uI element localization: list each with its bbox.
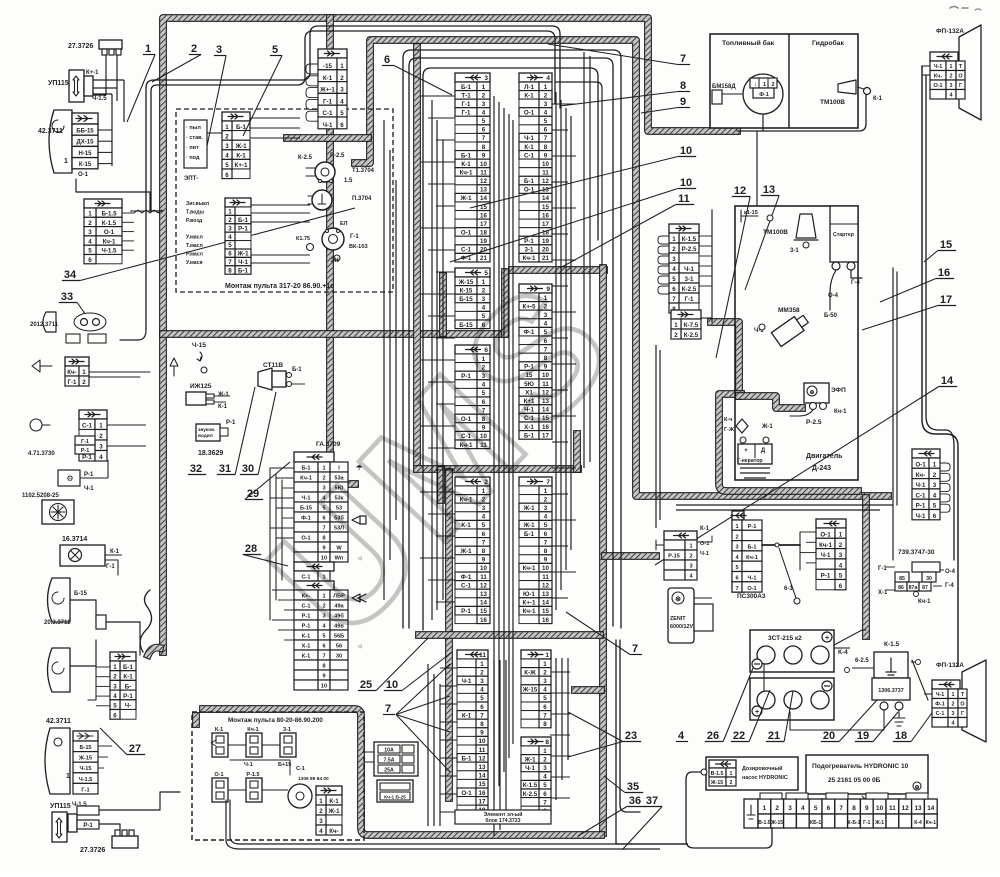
- svg-text:7: 7: [839, 805, 843, 812]
- svg-text:Ч-1.5: Ч-1.5: [101, 248, 117, 255]
- svg-text:Кч-1: Кч-1: [918, 599, 931, 605]
- svg-text:Х-1: Х-1: [878, 590, 888, 596]
- svg-text:27: 27: [129, 743, 141, 755]
- svg-text:Кч-1: Кч-1: [460, 169, 473, 176]
- svg-text:6: 6: [228, 251, 232, 258]
- svg-text:Р-1: Р-1: [83, 823, 93, 829]
- svg-text:В-1.5: В-1.5: [711, 771, 724, 777]
- svg-text:Р-1: Р-1: [748, 524, 757, 530]
- svg-text:6: 6: [672, 286, 676, 293]
- svg-text:К-1: К-1: [461, 161, 471, 168]
- svg-text:2: 2: [952, 702, 955, 708]
- svg-text:7: 7: [735, 586, 738, 592]
- svg-text:блок 174.3723: блок 174.3723: [485, 817, 520, 824]
- svg-text:5: 5: [544, 522, 548, 529]
- svg-text:С-1: С-1: [524, 152, 535, 159]
- svg-text:1: 1: [735, 524, 738, 530]
- svg-text:2: 2: [933, 472, 937, 479]
- svg-text:1: 1: [225, 124, 229, 131]
- svg-text:3: 3: [480, 678, 484, 685]
- svg-text:К-Ж: К-Ж: [524, 669, 536, 676]
- svg-text:К-1: К-1: [462, 712, 472, 719]
- svg-text:4: 4: [88, 238, 92, 245]
- svg-text:5: 5: [225, 162, 229, 169]
- svg-text:Ч-1: Ч-1: [700, 551, 709, 557]
- svg-text:к1-15: к1-15: [744, 210, 758, 216]
- svg-text:ПС300А3: ПС300А3: [737, 593, 766, 600]
- svg-text:Г-Ж: Г-Ж: [724, 427, 734, 433]
- svg-text:водил: водил: [198, 434, 213, 439]
- svg-text:2: 2: [340, 75, 344, 82]
- svg-text:14: 14: [480, 600, 487, 607]
- svg-text:4: 4: [933, 492, 937, 499]
- svg-text:Ч-1: Ч-1: [525, 765, 535, 772]
- svg-text:9: 9: [865, 805, 869, 812]
- svg-text:О-1: О-1: [461, 229, 472, 236]
- svg-text:10: 10: [680, 145, 692, 157]
- svg-text:4: 4: [543, 687, 547, 694]
- svg-text:56: 56: [336, 644, 342, 650]
- svg-text:Б-1.5: Б-1.5: [101, 211, 117, 218]
- svg-text:4: 4: [543, 774, 547, 781]
- svg-text:7: 7: [543, 712, 547, 719]
- svg-text:К-2.5: К-2.5: [523, 791, 538, 798]
- svg-text:ТМ100В: ТМ100В: [820, 99, 845, 106]
- svg-text:К-1: К-1: [524, 92, 534, 99]
- svg-text:УП115: УП115: [50, 803, 71, 810]
- svg-text:1: 1: [933, 462, 937, 469]
- svg-text:К-7.5: К-7.5: [684, 322, 699, 329]
- svg-text:Б-1: Б-1: [524, 178, 535, 185]
- svg-text:32: 32: [190, 463, 202, 475]
- svg-text:В-1.5: В-1.5: [758, 820, 770, 826]
- svg-text:5: 5: [482, 118, 486, 125]
- svg-text:10: 10: [480, 565, 487, 572]
- svg-text:Ж-1: Ж-1: [327, 808, 340, 815]
- svg-text:34: 34: [64, 269, 77, 281]
- svg-text:16: 16: [480, 617, 487, 624]
- svg-text:4: 4: [544, 514, 548, 521]
- svg-text:⊕: ⊕: [914, 785, 919, 791]
- svg-text:Р-2.5: Р-2.5: [330, 153, 345, 159]
- svg-text:Ж-1: Ж-1: [234, 143, 247, 150]
- svg-text:ТМ100В: ТМ100В: [763, 229, 788, 236]
- svg-text:10: 10: [479, 738, 486, 745]
- svg-text:12: 12: [480, 178, 487, 185]
- svg-text:Ф-1: Ф-1: [935, 702, 944, 708]
- svg-text:5: 5: [839, 573, 843, 580]
- svg-text:6: 6: [544, 531, 548, 538]
- svg-text:К-1.5: К-1.5: [102, 220, 117, 227]
- svg-text:2Н: 2Н: [331, 258, 339, 264]
- svg-text:О-1: О-1: [820, 532, 831, 539]
- svg-text:Г: Г: [961, 711, 964, 717]
- svg-text:1: 1: [482, 84, 486, 91]
- svg-text:Г-1: Г-1: [67, 379, 77, 386]
- svg-text:33: 33: [61, 291, 73, 303]
- svg-text:Р-1: Р-1: [226, 420, 236, 426]
- svg-text:Р-15: Р-15: [668, 554, 680, 560]
- svg-text:Р-1: Р-1: [461, 608, 471, 615]
- svg-text:8: 8: [482, 144, 486, 151]
- svg-text:739.3747-30: 739.3747-30: [898, 549, 935, 556]
- svg-text:3: 3: [340, 87, 344, 94]
- svg-text:Б-1: Б-1: [461, 84, 472, 91]
- svg-text:1306.3737: 1306.3737: [878, 688, 903, 694]
- svg-text:↓: ↓: [754, 82, 757, 88]
- svg-text:6: 6: [384, 54, 390, 66]
- svg-text:9: 9: [480, 730, 484, 737]
- svg-text:11: 11: [479, 747, 486, 754]
- svg-text:Р-1: Р-1: [302, 614, 311, 620]
- svg-text:13: 13: [480, 187, 487, 194]
- svg-text:Р-1: Р-1: [524, 238, 534, 245]
- svg-text:10: 10: [321, 684, 327, 690]
- svg-text:Ж-15: Ж-15: [522, 687, 538, 694]
- svg-text:5: 5: [88, 248, 92, 255]
- svg-text:87: 87: [922, 585, 928, 591]
- svg-text:УП115: УП115: [48, 80, 69, 87]
- svg-text:Кч-: Кч-: [916, 472, 925, 479]
- svg-text:Г-1: Г-1: [461, 101, 471, 108]
- svg-text:1: 1: [545, 652, 549, 659]
- svg-text:10: 10: [680, 177, 692, 189]
- svg-text:2: 2: [543, 756, 547, 763]
- svg-text:Р.масл: Р.масл: [186, 251, 203, 257]
- svg-text:Ч-: Ч-: [125, 703, 131, 710]
- svg-text:Стартер: Стартер: [833, 232, 854, 238]
- svg-text:ИЖ125: ИЖ125: [190, 383, 212, 390]
- svg-text:Ч-1: Ч-1: [936, 692, 945, 698]
- svg-text:5: 5: [340, 110, 344, 117]
- svg-text:Ж-1: Ж-1: [522, 522, 535, 529]
- svg-text:5: 5: [544, 118, 548, 125]
- svg-text:Д: Д: [761, 448, 766, 454]
- svg-text:5: 5: [322, 634, 325, 640]
- svg-text:2: 2: [82, 379, 86, 386]
- svg-text:Г-1: Г-1: [106, 564, 115, 570]
- svg-text:7.5А: 7.5А: [384, 758, 395, 764]
- svg-text:19: 19: [857, 730, 869, 742]
- svg-text:Г-нератор: Г-нератор: [737, 458, 763, 464]
- svg-text:Р-1: Р-1: [916, 503, 926, 510]
- svg-text:18: 18: [480, 229, 487, 236]
- svg-text:9: 9: [544, 152, 548, 159]
- svg-text:35: 35: [627, 781, 639, 793]
- svg-text:3: 3: [228, 225, 232, 232]
- svg-text:К-1: К-1: [302, 634, 310, 640]
- svg-text:К-1.5: К-1.5: [884, 641, 900, 648]
- svg-text:Р-1: Р-1: [123, 693, 133, 700]
- svg-text:1: 1: [544, 488, 548, 495]
- svg-text:Б-: Б-: [125, 683, 132, 690]
- svg-text:2: 2: [543, 669, 547, 676]
- svg-text:11: 11: [889, 805, 896, 812]
- svg-text:6: 6: [839, 583, 843, 590]
- svg-text:2: 2: [775, 805, 779, 812]
- svg-text:Кч-1: Кч-1: [926, 820, 937, 826]
- svg-text:3: 3: [543, 765, 547, 772]
- svg-text:-15: -15: [323, 63, 333, 70]
- svg-text:6: 6: [88, 257, 92, 264]
- svg-text:16: 16: [938, 267, 950, 279]
- svg-text:С-1: С-1: [82, 423, 93, 430]
- svg-text:1: 1: [839, 532, 843, 539]
- svg-text:Г-1: Г-1: [81, 439, 89, 445]
- svg-text:Б-1: Б-1: [123, 664, 134, 671]
- svg-text:Кч-1: Кч-1: [247, 727, 258, 733]
- svg-text:1: 1: [145, 43, 151, 55]
- svg-text:10: 10: [480, 161, 487, 168]
- svg-text:Ф-1: Ф-1: [759, 92, 769, 98]
- svg-text:6: 6: [480, 704, 484, 711]
- svg-text:ФП-132А: ФП-132А: [936, 28, 964, 35]
- svg-text:Ч-1: Ч-1: [934, 64, 943, 70]
- svg-text:2: 2: [99, 433, 103, 440]
- svg-text:3: 3: [543, 678, 547, 685]
- svg-text:3: 3: [482, 101, 486, 108]
- svg-text:2: 2: [191, 43, 197, 55]
- svg-text:Ч-1: Ч-1: [238, 259, 248, 266]
- svg-text:3-1: 3-1: [685, 276, 695, 283]
- svg-text:15: 15: [940, 239, 952, 251]
- svg-text:4: 4: [952, 721, 955, 727]
- svg-text:Ж-1: Ж-1: [459, 195, 472, 202]
- svg-text:4: 4: [672, 266, 676, 273]
- svg-text:37: 37: [646, 795, 658, 807]
- svg-text:К-1: К-1: [873, 96, 883, 102]
- svg-text:Ч-1: Ч-1: [821, 552, 831, 559]
- svg-text:4: 4: [480, 687, 484, 694]
- svg-text:Р-1: Р-1: [84, 472, 94, 478]
- svg-text:2: 2: [950, 74, 953, 80]
- svg-text:16: 16: [479, 790, 486, 797]
- svg-text:9: 9: [544, 557, 548, 564]
- svg-text:10: 10: [386, 679, 398, 691]
- svg-text:О-1: О-1: [747, 586, 756, 592]
- svg-text:С-1: С-1: [461, 247, 472, 254]
- svg-text:21: 21: [542, 255, 549, 262]
- svg-text:ЭПТ-: ЭПТ-: [184, 176, 198, 182]
- svg-text:· став.: · став.: [186, 135, 204, 141]
- svg-text:Б-1: Б-1: [292, 367, 302, 373]
- svg-text:21: 21: [768, 730, 780, 742]
- svg-text:Г-4: Г-4: [851, 280, 860, 286]
- svg-text:7: 7: [228, 259, 232, 266]
- svg-text:3: 3: [933, 482, 937, 489]
- svg-text:Д-243: Д-243: [812, 465, 831, 472]
- svg-text:25А: 25А: [384, 768, 394, 774]
- svg-text:5: 5: [228, 242, 232, 249]
- svg-text:К-15: К-15: [79, 162, 92, 168]
- svg-text:⊕: ⊕: [809, 390, 814, 396]
- svg-text:6: 6: [933, 513, 937, 520]
- svg-text:11: 11: [480, 169, 487, 176]
- svg-text:17: 17: [542, 221, 549, 228]
- svg-text:4: 4: [113, 693, 117, 700]
- svg-text:7: 7: [543, 799, 547, 806]
- svg-text:Кч-1: Кч-1: [103, 238, 116, 245]
- svg-text:30: 30: [242, 463, 254, 475]
- svg-text:ЭФП: ЭФП: [831, 387, 846, 394]
- svg-text:7: 7: [544, 135, 548, 142]
- svg-text:1: 1: [340, 63, 344, 70]
- svg-text:О-1: О-1: [214, 772, 223, 778]
- svg-text:2: 2: [730, 780, 733, 786]
- svg-text:8: 8: [545, 739, 549, 746]
- svg-text:6: 6: [544, 127, 548, 134]
- svg-text:2: 2: [319, 808, 323, 815]
- svg-text:3: 3: [319, 818, 323, 825]
- svg-text:85: 85: [899, 576, 905, 582]
- svg-text:4: 4: [99, 454, 103, 461]
- svg-text:1: 1: [66, 773, 70, 780]
- svg-text:5: 5: [543, 695, 547, 702]
- svg-text:Б-15: Б-15: [79, 745, 91, 751]
- svg-text:О-1: О-1: [78, 172, 89, 178]
- svg-text:Ж-1: Ж-1: [217, 392, 229, 398]
- svg-text:Кч-1: Кч-1: [523, 608, 536, 615]
- svg-text:6: 6: [322, 644, 325, 650]
- svg-text:Ч-1: Ч-1: [84, 486, 94, 492]
- svg-text:Ч-1: Ч-1: [684, 266, 694, 273]
- svg-text:Н-15: Н-15: [78, 151, 92, 157]
- svg-text:Ч-1.5: Ч-1.5: [92, 96, 107, 102]
- svg-text:22: 22: [733, 730, 745, 742]
- svg-text:1: 1: [88, 211, 92, 218]
- svg-text:10: 10: [542, 161, 549, 168]
- svg-text:Т-1: Т-1: [461, 92, 471, 99]
- svg-text:1: 1: [689, 544, 692, 550]
- svg-text:О: О: [958, 74, 962, 80]
- svg-text:Кч-: Кч-: [934, 74, 942, 80]
- svg-text:6: 6: [225, 172, 229, 179]
- svg-text:11: 11: [479, 652, 486, 659]
- svg-text:10А: 10А: [384, 748, 394, 754]
- svg-text:1: 1: [544, 84, 548, 91]
- svg-text:Ч-1: Ч-1: [462, 678, 472, 685]
- svg-text:11: 11: [542, 169, 549, 176]
- svg-text:Г-1: Г-1: [323, 98, 333, 105]
- svg-text:42.3711: 42.3711: [46, 718, 71, 725]
- svg-text:16.3714: 16.3714: [62, 536, 87, 543]
- svg-text:19: 19: [480, 238, 487, 245]
- svg-text:14: 14: [542, 600, 549, 607]
- svg-text:12: 12: [734, 185, 746, 197]
- svg-text:Ч-15: Ч-15: [79, 766, 91, 772]
- svg-text:18: 18: [895, 730, 907, 742]
- svg-text:27.3726: 27.3726: [68, 43, 93, 50]
- svg-text:К-2.5: К-2.5: [298, 155, 313, 161]
- svg-text:Б-1: Б-1: [462, 755, 473, 762]
- svg-text:Ч-1: Ч-1: [748, 576, 757, 582]
- svg-text:Б+15: Б+15: [278, 762, 291, 768]
- svg-text:30: 30: [336, 654, 342, 660]
- svg-text:ZENIT: ZENIT: [670, 616, 686, 622]
- svg-text:5: 5: [814, 805, 818, 812]
- svg-text:ФП-132А: ФП-132А: [936, 662, 964, 669]
- svg-text:9: 9: [680, 96, 686, 108]
- svg-text:15: 15: [480, 608, 487, 615]
- svg-text:4: 4: [801, 805, 805, 812]
- svg-text:С-1: С-1: [296, 766, 305, 772]
- svg-text:К-1: К-1: [700, 526, 710, 532]
- svg-text:· пыл: · пыл: [186, 125, 201, 131]
- svg-text:Ж-1: Ж-1: [236, 251, 249, 258]
- svg-text:Ч-1: Ч-1: [244, 762, 253, 768]
- svg-text:Р-1: Р-1: [302, 624, 311, 630]
- svg-text:13: 13: [914, 805, 922, 812]
- svg-text:Р-2.5: Р-2.5: [682, 246, 697, 253]
- svg-text:11: 11: [542, 574, 549, 581]
- svg-text:15: 15: [542, 204, 549, 211]
- svg-text:1: 1: [543, 748, 547, 755]
- svg-text:5: 5: [272, 44, 278, 56]
- svg-text:Г-1: Г-1: [81, 787, 89, 793]
- svg-text:Р-1: Р-1: [82, 454, 92, 461]
- svg-text:7: 7: [544, 539, 548, 546]
- svg-text:Б-1: Б-1: [238, 267, 249, 274]
- svg-text:Г: Г: [959, 83, 962, 89]
- svg-text:14: 14: [927, 805, 935, 812]
- svg-text:Г-1: Г-1: [350, 234, 359, 240]
- svg-text:10: 10: [876, 805, 884, 812]
- svg-text:1: 1: [950, 64, 953, 70]
- svg-text:1: 1: [952, 692, 955, 698]
- svg-text:9: 9: [482, 557, 486, 564]
- svg-text:86: 86: [898, 585, 904, 591]
- svg-text:1102.5208-25: 1102.5208-25: [22, 493, 59, 499]
- svg-text:2: 2: [839, 542, 843, 549]
- svg-text:2: 2: [772, 82, 775, 88]
- svg-text:Г-1: Г-1: [863, 820, 870, 826]
- svg-text:Т1.3704: Т1.3704: [352, 168, 375, 174]
- svg-text:6: 6: [482, 127, 486, 134]
- svg-text:БМ158Д: БМ158Д: [712, 84, 736, 90]
- svg-text:5: 5: [113, 703, 117, 710]
- svg-text:3: 3: [484, 75, 488, 82]
- svg-text:Ю-1: Ю-1: [523, 591, 535, 598]
- svg-text:4: 4: [225, 153, 229, 160]
- svg-text:15: 15: [542, 608, 549, 615]
- svg-text:13: 13: [763, 184, 775, 196]
- svg-text:К-Б-1: К-Б-1: [848, 820, 861, 826]
- svg-text:7: 7: [672, 296, 676, 303]
- svg-text:звуков.: звуков.: [198, 428, 215, 433]
- svg-text:1: 1: [82, 369, 86, 376]
- svg-text:5: 5: [480, 695, 484, 702]
- svg-text:3: 3: [113, 683, 117, 690]
- svg-text:3: 3: [88, 229, 92, 236]
- svg-text:6: 6: [543, 704, 547, 711]
- svg-text:Ж-1: Ж-1: [523, 756, 536, 763]
- svg-text:3: 3: [216, 44, 222, 56]
- svg-text:Б-1: Б-1: [238, 217, 249, 224]
- svg-text:1: 1: [480, 661, 484, 668]
- svg-text:3: 3: [225, 143, 229, 150]
- svg-text:У.масл: У.масл: [186, 235, 203, 241]
- svg-text:Р-1: Р-1: [81, 448, 90, 454]
- svg-text:8: 8: [228, 267, 232, 274]
- svg-text:КБ-1: КБ-1: [810, 820, 821, 826]
- svg-text:14: 14: [480, 195, 487, 202]
- svg-text:3-1: 3-1: [283, 727, 291, 733]
- svg-text:Ж-15: Ж-15: [458, 279, 474, 286]
- svg-text:7: 7: [385, 703, 391, 715]
- svg-text:1: 1: [674, 322, 678, 329]
- svg-text:8: 8: [480, 721, 484, 728]
- svg-text:О-4: О-4: [945, 569, 956, 575]
